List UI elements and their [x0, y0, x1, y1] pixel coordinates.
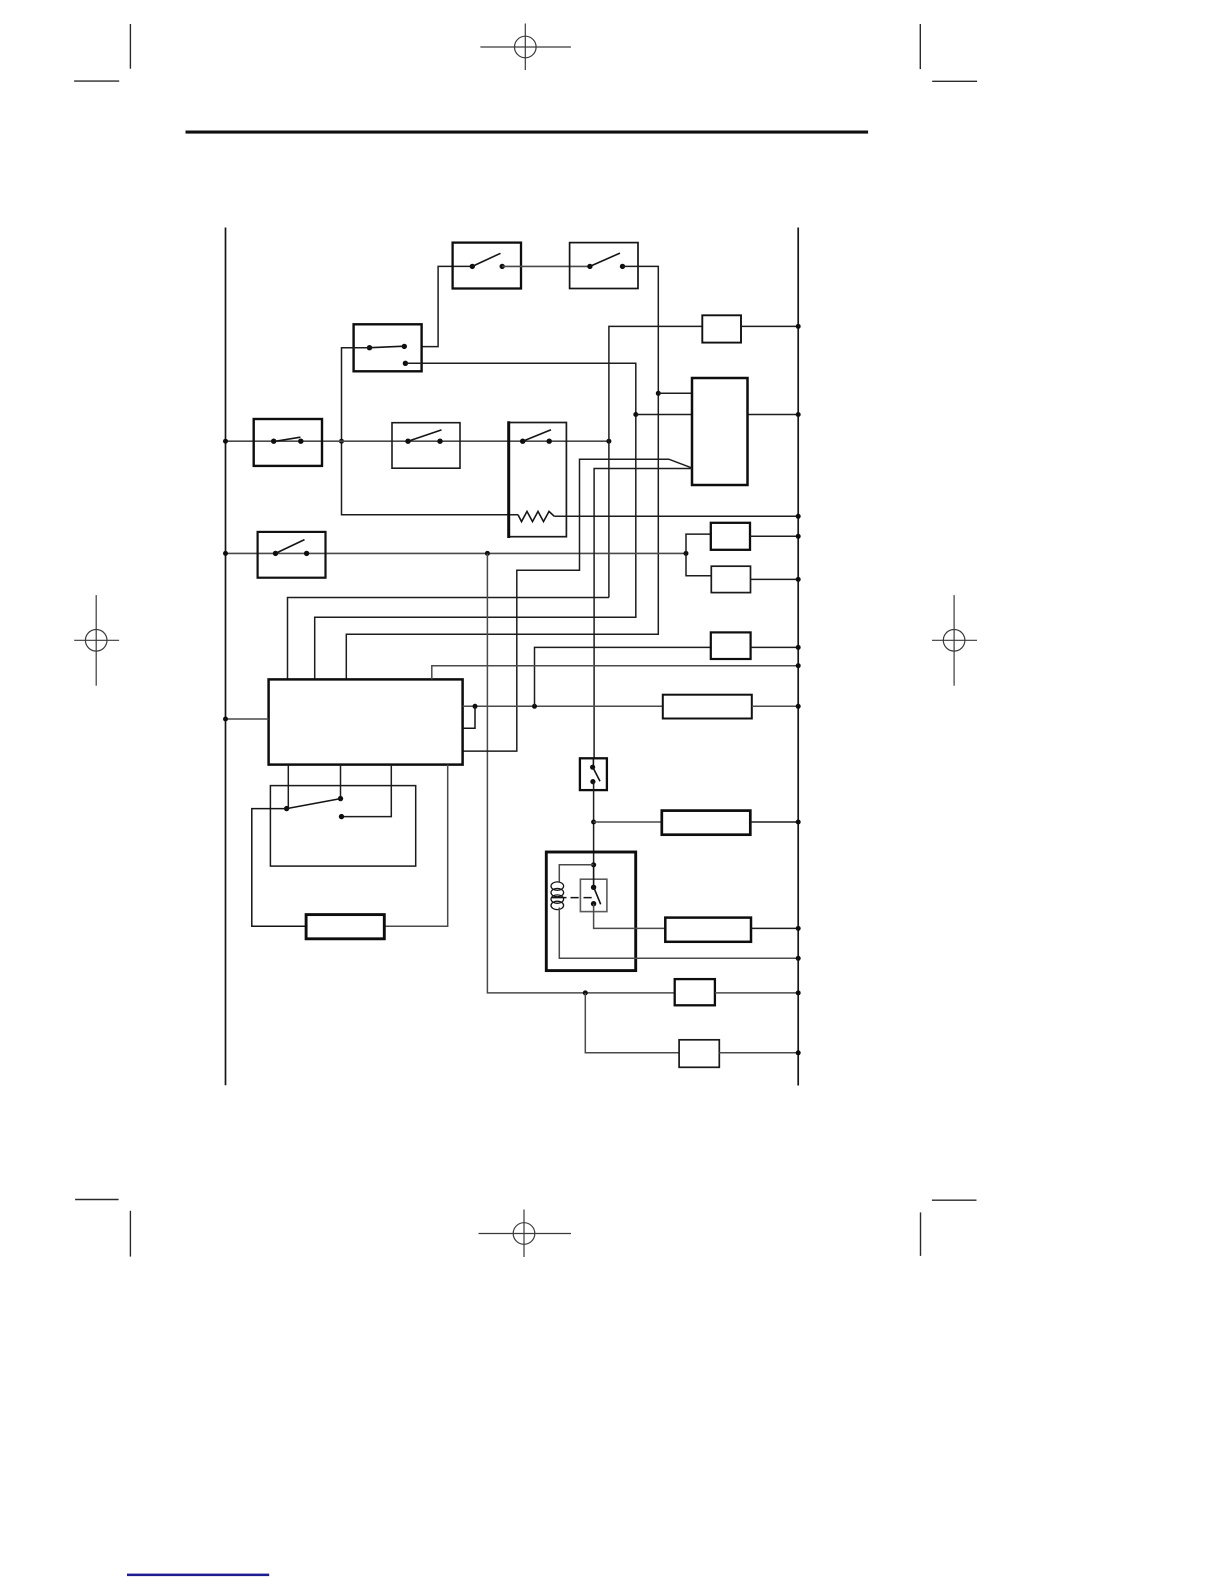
switch S6 with resistor R1 (wiper motor unit) [509, 421, 567, 538]
switch S7 [258, 532, 326, 578]
switch S8 (inline on relay feed) [580, 758, 607, 790]
wire: bundled pair lower, into box M lower input and down to relay feed drop [594, 469, 692, 759]
junction: E7 row tap [583, 990, 588, 995]
switch S2 [570, 243, 638, 289]
wire: E5 to right bus [750, 821, 798, 823]
junction: row 2 tap to long drop [485, 551, 490, 556]
wire: U1 pin 4 down to resistor R2 right side [384, 765, 447, 927]
wire: node to box M upper input [658, 392, 692, 394]
wire: R1 out to right bus [554, 515, 798, 517]
wire: S3 common down to resistor R1 feed [342, 348, 519, 515]
lamp E1 [711, 523, 750, 550]
lamp E8 [679, 1040, 719, 1068]
switch S5 [392, 423, 460, 469]
selector M1 (enclosure) [270, 786, 415, 867]
wire: U1 pin 2 down to selector contact B [340, 765, 342, 799]
wire: tap down to lamp E8 [585, 993, 679, 1053]
wire: U1 output pair tied at node, to motor box E4 [463, 705, 663, 707]
junction: S3 drop crosses main row [339, 439, 344, 444]
wire: box M output to right bus [748, 414, 799, 416]
wire: E1 to right bus [750, 535, 798, 537]
wire: main row from left bus through S4, S5, S6 [226, 440, 609, 442]
wire: U1 riser output direct to right bus [432, 666, 798, 680]
fuse E0 [702, 315, 741, 342]
wire: node to coil L1 [559, 865, 593, 882]
wire: long drop from row 2 down to lamp E7 row [487, 553, 674, 993]
motor E4 [663, 695, 752, 719]
wire: E6 to right bus [751, 927, 798, 929]
switch S4 [254, 419, 322, 466]
wire: coil return out of K1 to right bus [559, 908, 798, 959]
junction: tap to E5 [591, 820, 596, 825]
footer blue rule (decorative) [127, 1574, 269, 1577]
wire: E4 to right bus [752, 705, 798, 707]
junction: main row tap to vertical riser [606, 439, 611, 444]
wire: U1 second output looped up to node [463, 706, 475, 728]
wire: tap to E5 [594, 821, 662, 823]
junction: washer drop joins motor feed [532, 704, 537, 709]
junction: splitter node feeding E1 and E2 [684, 551, 689, 556]
coil L1 [551, 882, 564, 910]
box M (connector block) [692, 378, 748, 485]
resistor R2 [306, 915, 384, 939]
header rule (decorative) [186, 131, 869, 134]
heater E5 [662, 811, 751, 835]
wire: E7 to right bus [715, 992, 798, 994]
wire: S3 lower contact across to mid drop, down to corner y=617 into box M and control unit riser [315, 363, 636, 679]
relay contact [591, 865, 601, 907]
wire: E3 to right bus [751, 646, 799, 648]
wire: riser from switch S3 up to switch S1 [422, 266, 473, 346]
wire: second row from left bus through S7 to splitter node [226, 552, 687, 554]
actuator dashed link from L1 to contact [551, 897, 566, 899]
left supply bus [225, 228, 227, 1086]
wire: drop from node up to pump E3 [535, 647, 711, 706]
relay K1 (enclosure) [546, 852, 635, 971]
right return bus [797, 228, 799, 1086]
switch S1 [453, 243, 521, 289]
wire: U1 pin 3 down to selector contact C [342, 765, 392, 817]
lamp E7 [675, 979, 715, 1005]
switch S3 (double contact) [354, 324, 422, 371]
selector contacts [284, 796, 344, 819]
relay contact box [580, 879, 607, 911]
wire: splitter to lamp E1 [686, 534, 711, 553]
resistor R1 [518, 511, 554, 521]
wire: S2 down the long drop to node at control box M input, then to corner y=634 [346, 266, 658, 679]
wire: E8 to right bus [719, 1052, 798, 1054]
wire: S1 to S2 [502, 265, 590, 267]
junction: drop feeds box M pin [656, 391, 661, 396]
wire: U1 pin 1 down into selector M1 [287, 765, 289, 809]
wire: contact out of K1 to lamp E6 [594, 904, 666, 929]
wire: left bus to U1 [226, 718, 269, 720]
control unit U1 [269, 679, 463, 764]
junction: K1 input node [591, 862, 596, 867]
wire: E0 to right bus [741, 325, 798, 327]
wire: riser from main row up to fuse box E0 and down to control unit riser [288, 326, 703, 679]
wire: splitter to lamp E2 [686, 553, 711, 575]
pump E3 [711, 632, 751, 659]
junction: mid drop feeds box M second pin [633, 412, 638, 417]
wire: S8 down to heater E5 tap and relay K1 [593, 782, 595, 865]
wire: selector common out to resistor R2 left side [252, 809, 306, 927]
wire: control unit feedback loop to box M (bundled pair, upper) [463, 459, 692, 751]
page furniture: corner crop marks and registration targets (decorative) [74, 24, 977, 1257]
wire: node to box M second input [636, 414, 692, 416]
wire: E2 to right bus [751, 578, 799, 580]
lamp E6 [665, 918, 751, 942]
lamp E2 [711, 566, 750, 592]
